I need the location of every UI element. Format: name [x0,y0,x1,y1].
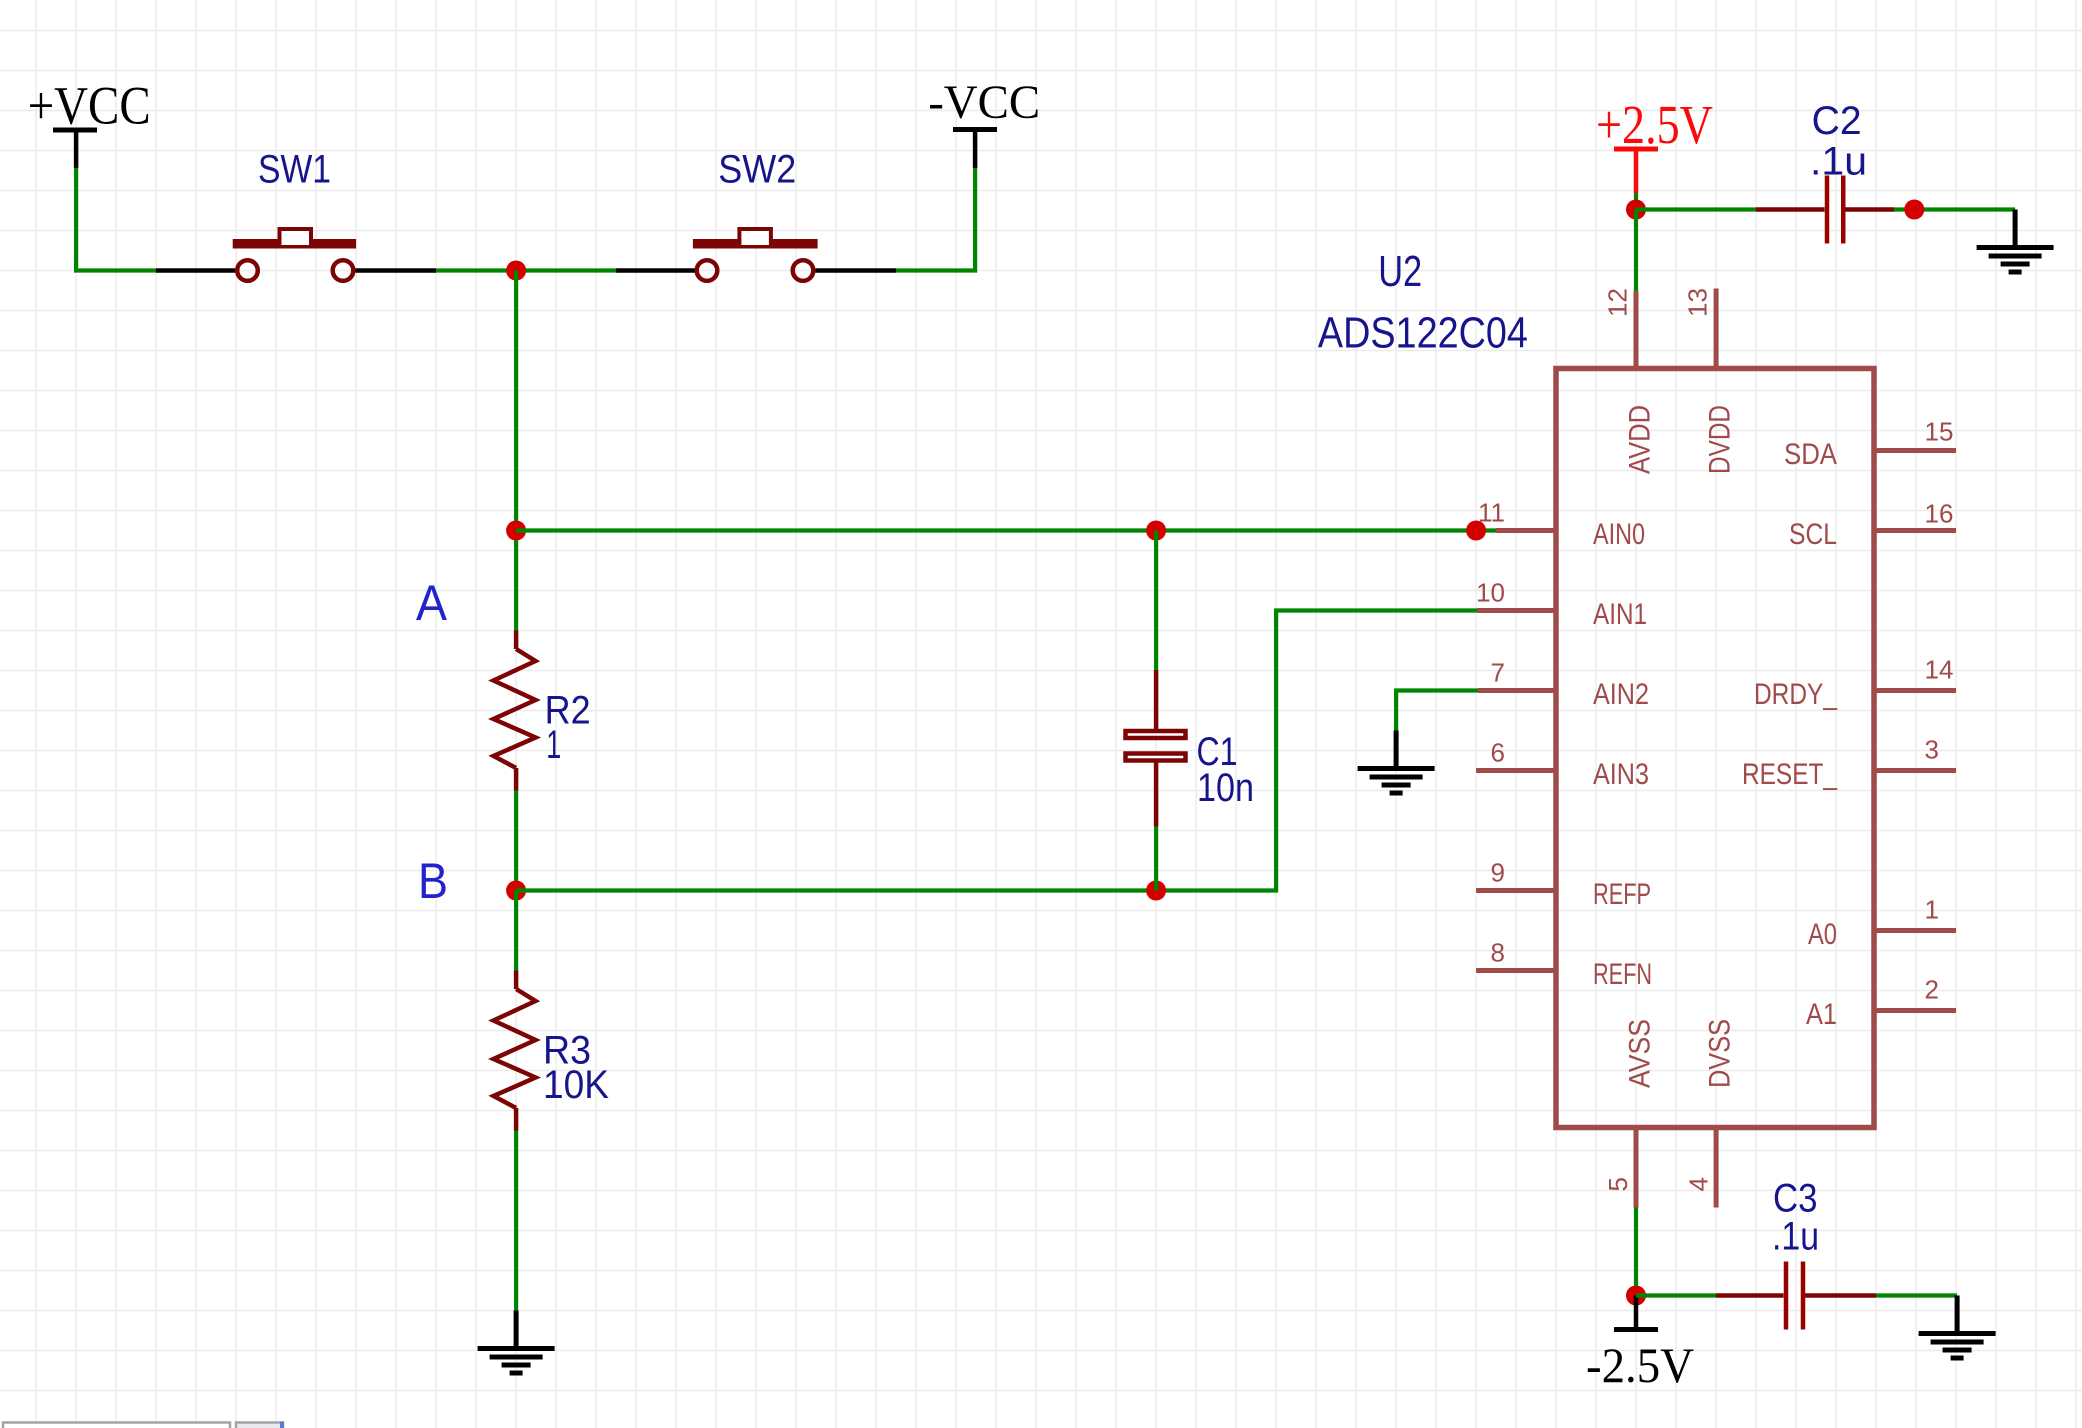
svg-text:11: 11 [1478,498,1505,528]
svg-text:AVDD: AVDD [1624,405,1657,474]
svg-text:AIN1: AIN1 [1593,598,1647,631]
svg-text:AIN3: AIN3 [1593,758,1649,791]
svg-text:ADS122C04: ADS122C04 [1318,308,1528,357]
svg-text:AVSS: AVSS [1624,1019,1657,1088]
svg-text:10K: 10K [543,1063,609,1107]
svg-text:REFN: REFN [1593,958,1652,991]
svg-text:SCL: SCL [1789,518,1837,551]
junction at C1 top [1146,521,1166,541]
pin REFP stub [1476,888,1556,893]
wire SW2 to -VCC [896,168,975,271]
svg-text:AIN2: AIN2 [1593,678,1649,711]
wire AIN2 to ground [1396,691,1478,731]
wire junction down to node A and R2 [514,271,518,631]
svg-text:U2: U2 [1378,247,1422,296]
UI command bar box [3,1423,230,1428]
pin AIN3 stub [1476,768,1556,773]
pin SCL stub [1874,528,1956,533]
pin SDA stub [1874,448,1956,453]
pin AVSS stub [1634,1128,1639,1208]
wire SW1 to SW2 [436,268,618,272]
power symbol +VCC [28,75,151,168]
wire R2 to node B [514,791,518,891]
power symbol -VCC [928,76,1040,168]
svg-text:10: 10 [1476,578,1505,608]
pin DRDY stub [1874,688,1956,693]
wire C3 to ground [1876,1293,1957,1297]
svg-text:DVSS: DVSS [1704,1019,1737,1088]
capacitor C1 [1126,670,1186,827]
svg-text:A1: A1 [1806,998,1837,1031]
svg-text:+VCC: +VCC [28,75,151,135]
svg-text:2: 2 [1925,975,1939,1005]
resistor R3 [494,971,536,1131]
svg-text:10n: 10n [1197,766,1254,810]
svg-text:C2: C2 [1812,99,1862,143]
svg-text:SDA: SDA [1784,438,1837,471]
svg-text:DRDY_: DRDY_ [1754,678,1838,711]
pin A0 stub [1874,928,1956,933]
svg-text:12: 12 [1603,288,1633,317]
junction AVDD node [1626,200,1646,220]
svg-text:SW1: SW1 [258,147,331,191]
junction node SW [506,261,526,281]
svg-text:6: 6 [1491,738,1505,768]
pin AIN0 stub [1496,528,1556,533]
svg-text:-VCC: -VCC [928,76,1040,129]
power symbol +2.5V [1596,94,1713,193]
pin REFN stub [1476,968,1556,973]
svg-text:-2.5V: -2.5V [1586,1337,1694,1393]
switch SW2 [616,229,896,281]
junction at C1 bottom [1146,881,1166,901]
junction C2 right [1904,200,1924,220]
junction at AIN0 pin [1466,521,1486,541]
UI small box with caret [236,1422,284,1428]
ground at C2 [1977,210,2054,273]
node A junction [506,521,526,541]
wire AVSS pin to node [1634,1208,1638,1296]
node B junction [506,881,526,901]
pin DVDD stub [1714,289,1719,369]
svg-text:.1u: .1u [1810,139,1867,183]
ground below R3 [478,1311,555,1374]
ground at C3 [1919,1296,1996,1359]
svg-text:15: 15 [1925,417,1954,447]
pin RESET stub [1874,768,1956,773]
pin DVSS stub [1714,1128,1719,1208]
svg-text:AIN0: AIN0 [1593,518,1645,551]
svg-text:+2.5V: +2.5V [1596,94,1713,155]
wire node B to AIN1 [516,611,1477,891]
wire AVDD node down to pin 12 [1634,210,1638,292]
pin A1 stub [1874,1008,1956,1013]
svg-text:8: 8 [1491,938,1505,968]
wire node B down to R3 [514,891,518,971]
svg-text:DVDD: DVDD [1704,405,1737,474]
wire C1 top [1154,531,1158,671]
IC U2 body [1556,369,1874,1128]
svg-text:B: B [418,853,448,909]
svg-text:.1u: .1u [1772,1214,1819,1258]
svg-text:A: A [416,575,448,631]
svg-text:16: 16 [1925,499,1954,529]
pin AIN2 stub [1478,688,1556,693]
wire node A to AIN0 [516,528,1496,532]
junction AVSS node [1626,1286,1646,1306]
svg-text:13: 13 [1683,288,1713,317]
wire C1 bottom [1154,827,1158,891]
pin AVDD stub [1634,291,1639,369]
wire +2.5V to AVDD node [1634,193,1638,210]
switch SW1 [156,229,436,281]
capacitor C2 [1756,176,1894,244]
capacitor C3 [1716,1262,1876,1330]
wire C2 to ground [1894,207,2015,211]
wire AVDD node to C2 [1636,207,1756,211]
svg-text:3: 3 [1925,735,1939,765]
wire R3 to ground [514,1131,518,1311]
svg-text:REFP: REFP [1593,878,1651,911]
svg-text:7: 7 [1491,658,1505,688]
power symbol -2.5V [1586,1296,1694,1394]
svg-text:A0: A0 [1808,918,1837,951]
svg-text:1: 1 [546,723,561,767]
svg-text:5: 5 [1603,1177,1633,1191]
resistor R2 [494,631,536,791]
ground at AIN2 [1358,731,1435,794]
svg-text:4: 4 [1684,1177,1714,1191]
wire +VCC to SW1 [76,168,156,271]
pin AIN1 stub [1477,608,1556,613]
svg-text:1: 1 [1925,895,1939,925]
wire AVSS node to C3 [1636,1293,1716,1297]
svg-text:SW2: SW2 [718,147,796,191]
svg-text:RESET_: RESET_ [1742,758,1838,791]
svg-text:14: 14 [1925,655,1954,685]
svg-text:9: 9 [1491,858,1505,888]
